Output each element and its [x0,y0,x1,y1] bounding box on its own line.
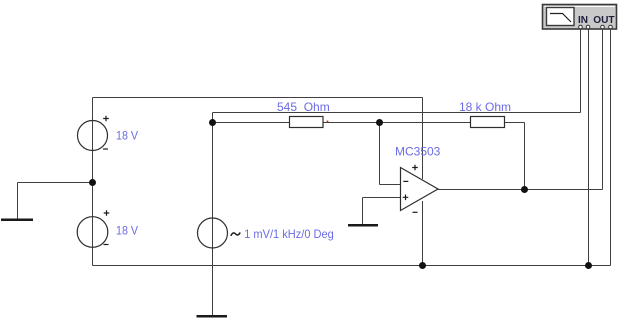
svg-text:545 Ohm: 545 Ohm [277,100,330,114]
svg-text:18 V: 18 V [116,129,138,143]
svg-text:1 mV/1 kHz/0 Deg: 1 mV/1 kHz/0 Deg [244,227,334,241]
svg-text:MC3503: MC3503 [395,145,441,159]
svg-text:18 V: 18 V [116,224,138,238]
svg-text:IN: IN [578,15,588,26]
svg-text:18 k Ohm: 18 k Ohm [459,100,511,114]
svg-text:OUT: OUT [593,15,614,26]
